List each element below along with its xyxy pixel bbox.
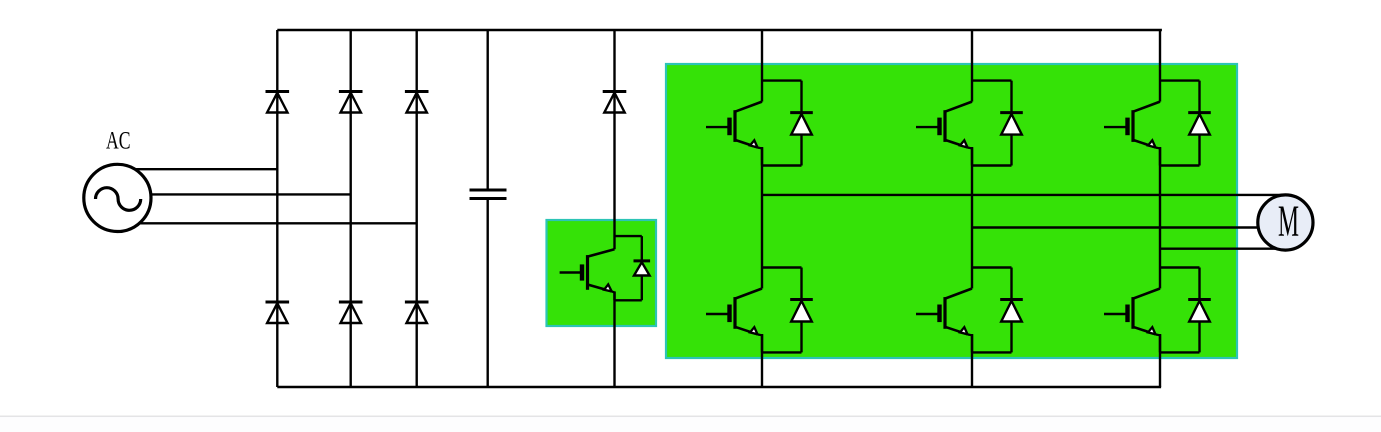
diode D6 (rectifier lower, leg 2): [339, 302, 363, 323]
transistor Q1 (inverter leg 1 upper IGBT with freewheel diode): [706, 81, 813, 166]
wire inverter leg 3 bottom: [1159, 334, 1161, 387]
brake chopper module highlight box: [547, 220, 657, 326]
wire inverter leg 2 upper: [971, 30, 973, 102]
wire chopper branch lower: [613, 292, 615, 388]
svg-text:AC: AC: [106, 128, 131, 155]
wire inverter leg 1 upper: [761, 30, 763, 102]
wire chopper branch upper: [613, 30, 615, 249]
wire rectifier leg 1: [276, 30, 278, 387]
wire inverter leg 2 bottom: [971, 334, 973, 387]
wire DC- bottom bus: [277, 386, 1161, 388]
transistor Q6 (inverter leg 3 lower IGBT with freewheel diode): [1104, 268, 1211, 353]
diode D3 (rectifier upper, leg 2): [339, 92, 363, 113]
ac source G1 circle: [84, 164, 151, 231]
wire motor phase U output: [762, 194, 1287, 196]
wire inverter leg 3 upper: [1159, 30, 1161, 102]
diode D2 (rectifier lower, leg 3): [405, 302, 429, 323]
transistor Q3 (inverter leg 2 upper IGBT with freewheel diode): [916, 81, 1023, 166]
wire phase A (AC to rectifier leg 1): [120, 168, 277, 170]
motor M1 circle: [1258, 195, 1313, 250]
ac source sine wave symbol: [96, 188, 141, 211]
wire DC+ top bus: [277, 29, 1162, 31]
svg-text:M: M: [1278, 197, 1299, 246]
transistor Q2 (inverter leg 1 lower IGBT with freewheel diode): [706, 268, 813, 353]
transistor Q4 (inverter leg 2 lower IGBT with freewheel diode): [916, 268, 1023, 353]
transistor Q5 (inverter leg 3 upper IGBT with freewheel diode): [1104, 81, 1211, 166]
wire inverter leg 3 middle: [1159, 147, 1161, 289]
wire phase B (AC to rectifier leg 2): [120, 193, 351, 195]
diode D1 (rectifier upper, leg 1): [266, 92, 290, 113]
wire phase C (AC to rectifier leg 3): [120, 222, 417, 224]
wire rectifier leg 3: [416, 30, 418, 387]
wire motor phase V output: [972, 226, 1287, 228]
wire inverter leg 1 bottom: [761, 334, 763, 387]
page footer separator line: [0, 416, 1381, 418]
capacitor C1 (DC link): [470, 190, 507, 199]
diode D5 (rectifier upper, leg 3): [405, 92, 429, 113]
diode D7 (brake resistor branch): [603, 92, 627, 113]
wire capacitor branch upper: [487, 30, 489, 190]
wire rectifier leg 2: [350, 30, 352, 387]
wire inverter leg 1 middle: [761, 147, 763, 289]
wire motor phase W output: [1160, 247, 1287, 249]
diode D4 (rectifier lower, leg 1): [266, 302, 290, 323]
inverter module highlight box: [666, 64, 1237, 358]
transistor Q7 (brake chopper IGBT with freewheel diode): [560, 236, 651, 300]
wire inverter leg 2 middle: [971, 147, 973, 289]
wire capacitor branch lower: [487, 199, 489, 388]
